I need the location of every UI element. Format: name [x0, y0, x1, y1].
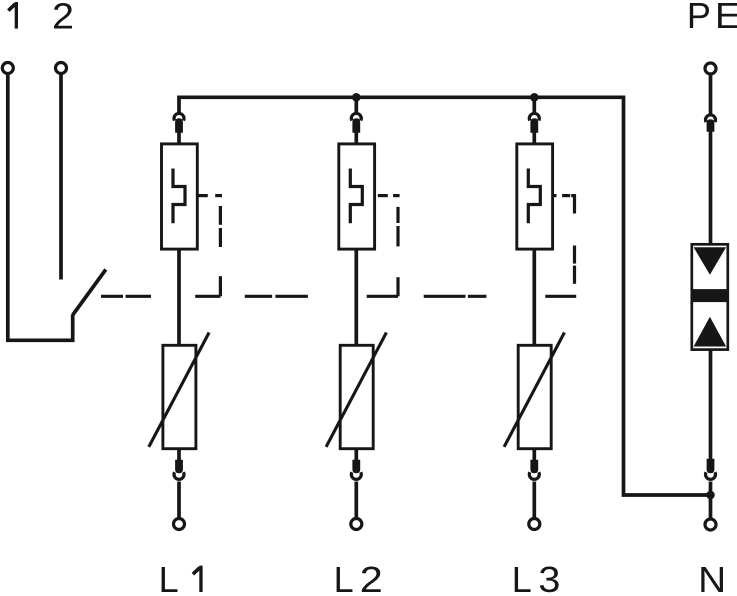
- svg-text:L: L: [159, 559, 179, 596]
- svg-text:P: P: [687, 0, 711, 36]
- spark gap electrode top (filled triangle down): [694, 247, 727, 275]
- spark gap electrode bottom (filled triangle up): [694, 317, 727, 347]
- wire socket to terminal L3: [532, 482, 536, 519]
- plug-in contact pin bottom L2: [352, 460, 360, 474]
- wire PE terminal to plug: [709, 74, 713, 115]
- dashed linkage stub L1 (box to vertical): [198, 194, 222, 197]
- plug-in contact socket top L2: [351, 113, 361, 120]
- wire terminal 1 to switch pivot: [8, 74, 73, 341]
- terminal 1: [2, 63, 13, 74]
- varistor diagonal stroke L3: [504, 333, 564, 447]
- wire socket to terminal L1: [177, 482, 181, 519]
- svg-text:L: L: [334, 559, 354, 596]
- plug-in contact socket top L1: [174, 113, 184, 120]
- thermal disconnector box L3: [517, 144, 553, 249]
- wire pin to disconnector box L3: [532, 131, 536, 143]
- plug-in contact socket top PE: [706, 115, 716, 122]
- dashed linkage vertical L1: [219, 206, 222, 296]
- svg-text:2: 2: [52, 0, 74, 37]
- plug-in contact pin bottom N: [707, 459, 715, 474]
- svg-text:E: E: [715, 0, 737, 36]
- wire disconnector to varistor L2: [354, 249, 358, 345]
- varistor box L3: [518, 345, 551, 448]
- dashed linkage stub L2 (box to vertical): [378, 194, 400, 197]
- plug-in contact pin top PE: [707, 119, 715, 132]
- varistor diagonal stroke L1: [149, 333, 209, 447]
- terminal N: [705, 519, 716, 530]
- bus junction node at L2: [352, 93, 361, 102]
- terminal 2: [56, 63, 67, 74]
- wire pin to spark gap PE: [709, 130, 713, 244]
- thermal disconnector switch symbol L1: [173, 169, 185, 224]
- wire varistor to pin L3: [532, 450, 536, 461]
- varistor diagonal stroke L2: [326, 333, 386, 447]
- junction node N: [706, 491, 715, 500]
- thermal disconnector box L1: [162, 144, 198, 249]
- dashed mechanical linkage horizontal main line: [101, 295, 576, 298]
- dashed linkage stub L3 (box to vertical): [553, 196, 574, 214]
- plug-in contact pin top L3: [530, 118, 538, 133]
- switch blade S (remote signalling contact): [73, 270, 106, 316]
- bus junction node at L3: [530, 93, 539, 102]
- thermal disconnector switch symbol L2: [350, 169, 362, 224]
- plug-in contact socket bottom L2: [351, 472, 361, 479]
- plug-in contact socket bottom L1: [174, 472, 184, 479]
- plug-in contact pin bottom L3: [530, 460, 538, 474]
- wire varistor to pin L2: [354, 450, 358, 461]
- terminal L2: [351, 519, 362, 530]
- wire spark gap to pin N: [709, 349, 713, 461]
- thermal disconnector switch symbol L3: [528, 169, 540, 224]
- varistor box L2: [340, 345, 373, 448]
- svg-text:2: 2: [360, 559, 383, 596]
- wire disconnector to varistor L1: [177, 249, 181, 345]
- dashed linkage vertical L2: [396, 207, 399, 296]
- wire pin to disconnector box L2: [354, 131, 358, 143]
- wire socket to terminal L2: [354, 482, 358, 519]
- wire disconnector to varistor L3: [532, 249, 536, 345]
- plug-in contact socket bottom N: [706, 472, 716, 479]
- svg-text:3: 3: [538, 559, 560, 596]
- spark gap middle bar: [692, 289, 728, 302]
- dashed linkage vertical L3: [573, 246, 576, 284]
- wire bus to L2 plug: [354, 97, 358, 114]
- thermal disconnector box L2: [339, 144, 375, 249]
- plug-in contact pin top L1: [175, 118, 183, 133]
- terminal PE: [705, 63, 716, 74]
- svg-text:L: L: [512, 559, 532, 596]
- wire bus to L3 plug: [532, 97, 536, 114]
- plug-in contact socket bottom L3: [529, 472, 539, 479]
- svg-text:N: N: [698, 559, 726, 596]
- wire pin to disconnector box L1: [177, 131, 181, 143]
- wire varistor to pin L1: [177, 450, 181, 461]
- spark gap box N-PE: [692, 244, 728, 349]
- label terminal 1: [7, 2, 18, 29]
- plug-in contact pin top L2: [352, 118, 360, 133]
- wire socket to N terminal: [709, 482, 713, 519]
- plug-in contact pin bottom L1: [175, 460, 183, 474]
- wire terminal 2 (fixed contact): [59, 74, 63, 280]
- top bus wire L1-PE side: [179, 97, 711, 495]
- varistor box L1: [163, 345, 196, 448]
- terminal L1: [174, 519, 185, 530]
- plug-in contact socket top L3: [529, 113, 539, 120]
- terminal L3: [529, 519, 540, 530]
